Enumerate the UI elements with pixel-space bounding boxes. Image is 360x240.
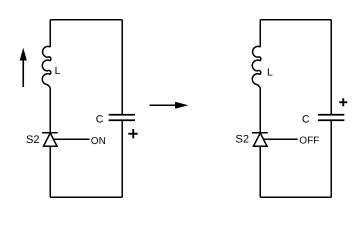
wire: left circuit left side above inductor [49,20,51,47]
inductor L coil (left circuit) [42,46,51,88]
svg-text:C: C [96,113,104,125]
wire: right circuit below thyristor [259,146,261,197]
wire: left circuit between inductor and thyristor [49,88,51,133]
current direction arrowhead [20,48,27,61]
current direction arrow shaft (left of left circuit) [22,58,24,87]
thyristor S2 cathode bar (right circuit) [252,132,268,134]
capacitor C bottom plate (left circuit) [109,119,135,121]
wire: left circuit top side [50,19,122,21]
svg-text:L: L [55,65,61,77]
thyristor S2 gate wire (left circuit) [53,138,89,140]
capacitor C top plate (right circuit) [318,114,344,116]
svg-text:ON: ON [91,136,106,147]
wire: left circuit below thyristor [49,146,51,197]
wire: right circuit between inductor and thyristor [259,88,261,133]
plus sign below capacitor (left circuit) [128,129,137,138]
svg-text:C: C [302,113,310,125]
plus sign above capacitor (right circuit) [339,98,347,106]
svg-text:L: L [267,67,273,79]
thyristor S2 cathode bar (left circuit) [42,132,58,134]
transfer arrowhead [175,102,188,109]
wire: left circuit right side above capacitor [121,20,123,115]
wire: right circuit right side below capacitor [330,120,332,197]
thyristor S2 triangle (right circuit) [253,133,267,146]
thyristor S2 gate wire (right circuit) [263,138,297,140]
capacitor C bottom plate (right circuit) [318,119,344,121]
inductor L coil (right circuit) [252,46,261,88]
wire: right circuit top side [260,19,331,21]
svg-text:OFF: OFF [299,136,319,147]
wire: left circuit bottom side [50,196,122,198]
capacitor C top plate (left circuit) [109,114,135,116]
wire: right circuit left side above inductor [259,20,261,47]
svg-text:S2: S2 [236,133,249,145]
svg-text:S2: S2 [26,134,39,146]
transfer arrow shaft (between circuits) [150,104,178,106]
wire: right circuit bottom side [260,196,331,198]
thyristor S2 triangle (left circuit) [43,133,57,146]
wire: right circuit right side above capacitor [330,20,332,115]
wire: left circuit right side below capacitor [121,120,123,197]
